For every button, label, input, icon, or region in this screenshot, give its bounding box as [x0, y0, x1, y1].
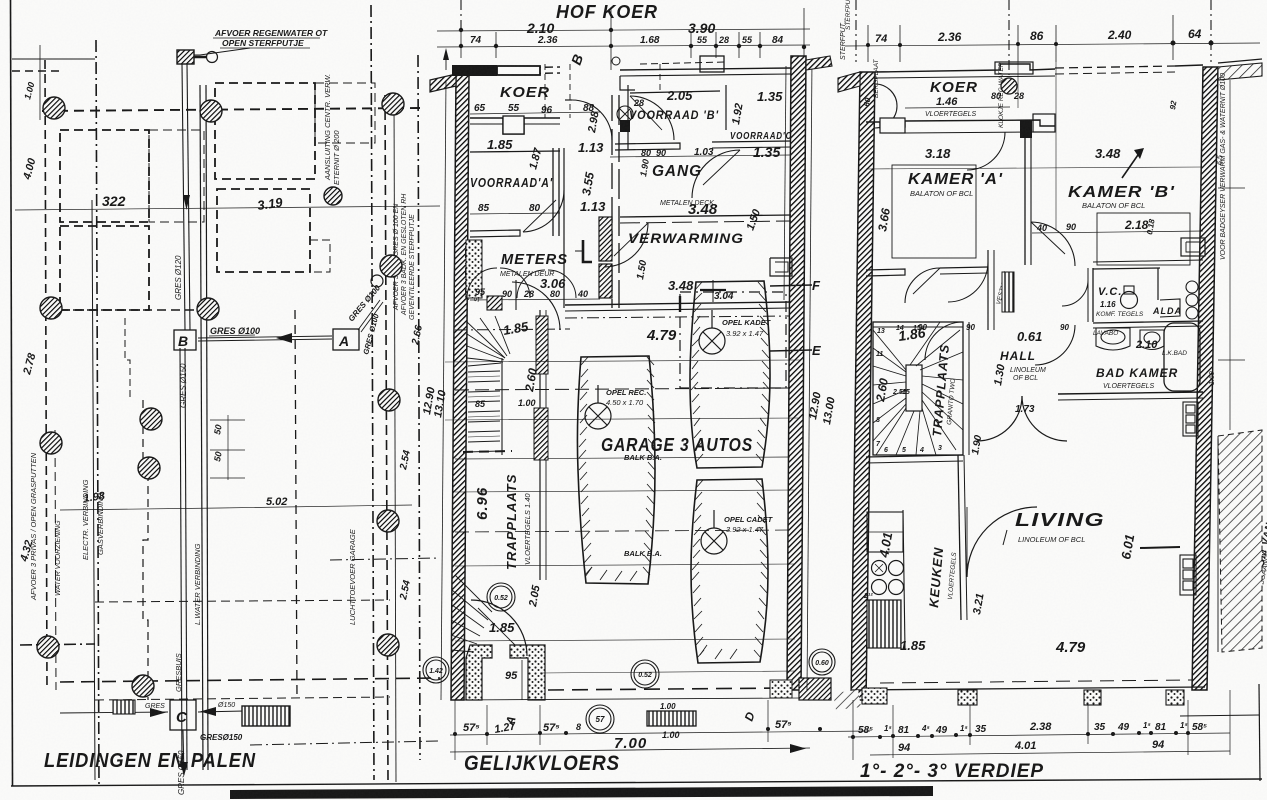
lamp symbols: [585, 310, 727, 554]
radial steps: [873, 322, 963, 455]
trap area walls: [539, 310, 541, 580]
title verdiep: [860, 761, 1044, 782]
vertical refs at bottom: [454, 700, 456, 760]
bottom wall of garage dashed: [548, 688, 790, 690]
bottom dimension rows: [450, 731, 870, 735]
door arcs top of hall: [948, 262, 988, 302]
sink grill: [867, 600, 901, 648]
hatch stub top right: [1218, 63, 1262, 80]
small circle beside box: [207, 52, 218, 63]
stepped dashed line x125 upper: [125, 318, 130, 400]
entrance stipple piers: [466, 645, 492, 700]
stair newel vertical: [501, 358, 503, 455]
car 1 outline: [577, 356, 655, 584]
washbasin 2 komf: [1140, 330, 1164, 350]
big entrance arc: [471, 600, 527, 656]
door arc between A and B bottom: [1031, 222, 1075, 266]
wall under B/C with opening: [615, 143, 680, 150]
vc walls: [1092, 268, 1094, 322]
top wall stepped: [875, 64, 1055, 72]
top annotation text AFVOER REGENWATER: [214, 28, 328, 48]
F marks right side: [812, 278, 822, 358]
circled dims: [423, 583, 835, 733]
border right upper tick: [1180, 715, 1259, 716]
KOER room: [862, 58, 1024, 118]
dark pier on A/B wall top: [1020, 120, 1032, 138]
stair fan bottom-left: [451, 575, 492, 652]
stipple pier left: [466, 240, 482, 298]
wall under GANG y215: [620, 215, 791, 217]
dash-dot lines across garage zone: [565, 316, 790, 318]
VOORRAAD B: [629, 88, 792, 142]
stairwell: [873, 322, 969, 455]
50/50 vertical dim line: [227, 415, 229, 480]
door arc voorraad A: [523, 190, 564, 232]
hatch stub left of panel: [430, 74, 456, 92]
left boundary dashed x45: [45, 60, 47, 690]
staircase treads: [467, 371, 500, 452]
plots top-right: [215, 83, 315, 179]
top fence dashed double to right: [497, 67, 560, 68]
right side hatch stub above right wall: [806, 56, 832, 70]
hatched pier bottom right: [799, 678, 831, 700]
door arc into trapplaats: [512, 282, 560, 330]
stacked circles right: [1186, 294, 1198, 306]
gres pipe double line x183: [182, 64, 185, 330]
black junction box at corridor top: [620, 120, 630, 132]
top-left gate rect: [452, 65, 497, 76]
staircase winder fan: [467, 316, 510, 366]
meters thick L corner: [583, 240, 592, 262]
dim row 1 line: [437, 29, 810, 31]
HALL: [918, 323, 1069, 387]
koer double door arcs: [875, 84, 897, 106]
kitchen counter: [903, 510, 905, 650]
dim line under kamer B: [1032, 231, 1203, 233]
second 1.35 dim voorraad C: [753, 144, 780, 160]
door arc voorraad C: [692, 150, 740, 198]
hatched pipe box: [177, 50, 194, 64]
dim line under 3.18/3.48: [866, 167, 1203, 169]
small arrow left of wall: [443, 48, 449, 60]
bottom wall of right panel: [852, 687, 1205, 690]
car1 hatch ticks: [579, 357, 655, 581]
wall A/B: [1024, 122, 1026, 265]
corridor right wall (GANG west wall): [611, 95, 613, 308]
verwarming bottom wall: [565, 302, 791, 305]
wall above VC to right wall: [1093, 260, 1203, 262]
vertical dash-dot axes top: [460, 0, 462, 30]
vertical solid pipe line x93 lower: [92, 200, 95, 780]
dim ticks verticals: [461, 8, 804, 64]
vc door arc: [1062, 280, 1088, 306]
KAMER A: [875, 146, 1003, 233]
dim line room: [470, 213, 560, 214]
small hatched grate left: [113, 700, 135, 714]
neighbour hatched zone: [1218, 430, 1262, 652]
LEFT WALL hatched: [851, 72, 875, 700]
car 3 outline: [691, 479, 768, 663]
B junction box: [174, 330, 196, 350]
vertical ref lines bottom: [853, 690, 1230, 760]
koer bottom wall stepped: [866, 120, 1055, 128]
ALDA niche: [1152, 306, 1182, 316]
title HOF KOER: [526, 2, 715, 36]
leader to pipe box: [192, 48, 250, 55]
hatch stub left of left wall: [838, 72, 860, 92]
RIGHT WALL hatched: [1192, 67, 1218, 690]
bathtub: [1164, 323, 1200, 391]
vertical dashdot refs: [855, 0, 857, 62]
entrance door arc: [478, 608, 525, 655]
radiator bottom right: [1180, 555, 1196, 595]
living door arcs (double swing) from hall: [977, 396, 1022, 441]
voorraad B walls: [630, 91, 720, 93]
arrow down bottom center: [183, 730, 184, 775]
face lines beside walls: [441, 80, 446, 700]
stove burners: [872, 561, 904, 595]
lower boundary of plot block: [45, 309, 215, 311]
stair labels: [475, 319, 540, 409]
voorraad A walls: [470, 151, 560, 152]
diagonal pipe from A up-right: [358, 300, 380, 330]
right margin annotations: [1209, 73, 1267, 641]
window marks on right wall: [1181, 238, 1205, 256]
C junction box: [170, 700, 196, 730]
radiator right: [1183, 402, 1198, 436]
bold dashed under stairs: [463, 451, 512, 452]
hall verticals: [987, 250, 989, 330]
wall below kamer A (y268): [866, 269, 905, 276]
KOER area: [474, 84, 602, 135]
radiator crosshatch column: [599, 217, 612, 261]
toilet: [1121, 292, 1138, 309]
top wall right section over VOORRAAD B/C: [620, 68, 791, 70]
GANG: [638, 147, 714, 180]
A junction box: [333, 329, 359, 350]
hatched circles (piles): [37, 93, 404, 697]
LEFT WALL hatched: [451, 74, 469, 700]
right boundary pair x386/x395: [385, 95, 388, 780]
gres100 line between B and A: [198, 336, 332, 338]
border right: [1259, 684, 1260, 781]
door arc into kamer A: [967, 132, 1005, 170]
5.02 measure line: [220, 505, 412, 508]
METERS room: [465, 245, 568, 302]
stepped dashed line x145: [143, 400, 148, 700]
long vertical dash-dot line x95: [96, 40, 99, 786]
inter-panel dash-dot x418: [418, 55, 420, 760]
ladder / grill stairs: [242, 706, 290, 726]
left inner dashed x56 lower: [55, 430, 56, 690]
upper cabinets: [867, 512, 903, 552]
gres pipe lower x183: [180, 348, 182, 770]
door arc kamer A to hall: [905, 268, 940, 303]
top property dashed line y111: [42, 108, 420, 111]
washbasin 1: [1096, 328, 1130, 350]
dashed service rect in garage: [680, 292, 786, 388]
side vertical dims 12.90/13.00 right: [807, 18, 847, 426]
grill vent bottom center: [647, 711, 696, 726]
heavy marks bottom of verwarming: [679, 296, 681, 312]
hatched circle rain pipe: [1001, 78, 1017, 94]
construction thin lines across garage: [445, 360, 800, 673]
BADKAMER: [1093, 330, 1187, 390]
dashed horizontal at y530 right part: [330, 558, 440, 560]
border left: [11, 0, 13, 786]
compass arrow: [1122, 152, 1140, 178]
construction verticals from dim row: [1017, 62, 1019, 108]
VOORRAAD A room: [470, 137, 553, 214]
door arc voorraad B: [630, 96, 674, 140]
wall below stairwell: [866, 455, 963, 457]
arc into living lower: [967, 507, 1037, 577]
vestiaire slot: [995, 270, 1011, 305]
bottom dimension rows: [848, 733, 1230, 737]
dim row 2 line: [437, 45, 810, 47]
LIVING: [971, 510, 1137, 656]
dots on dim rows: [459, 28, 806, 49]
title LEIDINGEN EN PALEN: [44, 750, 256, 772]
badkamer top wall: [1093, 321, 1203, 323]
door arc from gang down: [604, 223, 648, 267]
TRAPPLAATS labels: [474, 474, 543, 635]
KEUKEN: [863, 531, 958, 653]
connector dashed through bottom circles: [250, 741, 440, 745]
plots top-left: dashed rectangles: [60, 130, 149, 222]
hatched block at stair top: [487, 296, 502, 310]
corridor vertical walls: [563, 148, 565, 308]
vertical dashed refs top courtyard: [569, 64, 571, 118]
VERWARMING: [628, 200, 763, 281]
koer lower wall stepped: [470, 118, 560, 134]
right wall face line: [784, 66, 786, 300]
step outline right of plots: [310, 240, 330, 272]
hatch between panels bottom: [833, 690, 861, 710]
hall door arcs: [925, 322, 963, 360]
corridor center labels: [578, 140, 606, 214]
chimney detail right: [770, 258, 792, 276]
bottom door arcs row: [467, 268, 497, 298]
V.C.: [1096, 286, 1144, 318]
dim line right outside: [1229, 80, 1231, 430]
step outline above VOORRAAD B: [620, 76, 635, 90]
title GELIJKVLOERS: [464, 752, 620, 775]
bottom black bar: [230, 786, 933, 799]
section letter B: [568, 51, 587, 67]
door arc in corridor top: [572, 100, 612, 140]
garage header dims: [646, 278, 734, 344]
GARAGE 3 AUTOS title: [601, 435, 753, 455]
measure line 322: [15, 206, 440, 210]
carpet rect: [892, 165, 976, 258]
kamer B carpet rect: [1097, 213, 1190, 265]
RIGHT WALL hatched: [787, 56, 806, 690]
small circle white at 377,281: [371, 275, 383, 287]
badkamer bottom wall: [1058, 392, 1203, 394]
border bottom: [11, 779, 1262, 786]
bottom piers: [862, 688, 887, 704]
mid vertical dashed x295: [295, 310, 297, 700]
wall keuken/living vertical: [958, 455, 961, 620]
vertical dash-dot x370: [371, 5, 374, 780]
dashed horizontals lower area: [95, 600, 390, 602]
top dim row: [845, 43, 1260, 46]
top-left corner lines: [39, 45, 41, 120]
vertical pipeline labels: [29, 74, 416, 795]
car 2 outline: [690, 281, 770, 468]
arrow down on pipe: [183, 195, 190, 210]
sewer main x202: [200, 85, 203, 770]
KAMER B: [1036, 99, 1179, 235]
arrows into C: [60, 712, 168, 713]
